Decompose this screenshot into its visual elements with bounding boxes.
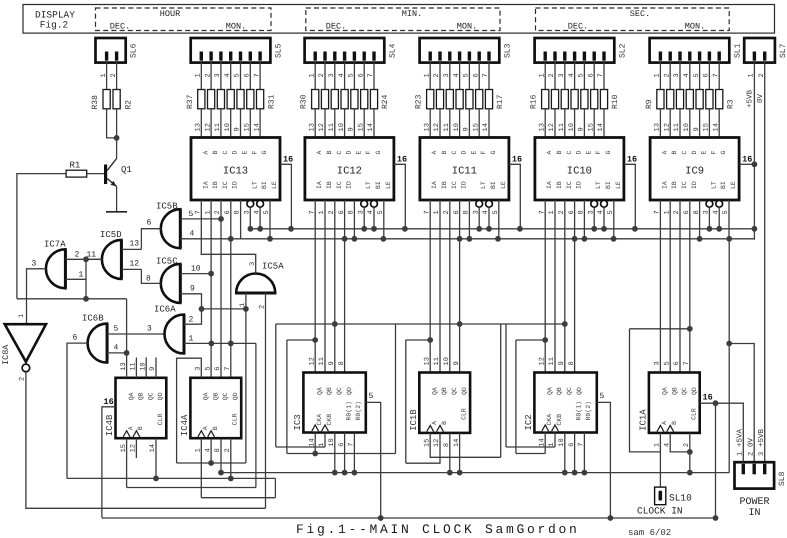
node IC1B pin14 gnd (457, 470, 463, 476)
wire resistor 0-1 to IC (210, 109, 212, 138)
svg-text:1: 1 (79, 271, 84, 280)
node IC3 pin7 gnd (352, 470, 358, 476)
svg-text:R31: R31 (267, 94, 276, 109)
svg-text:9: 9 (578, 127, 586, 131)
svg-text:11: 11 (558, 123, 566, 131)
pin 5 of SL2 (583, 63, 585, 90)
wire 0V trunk jog to SL8 pin2 (729, 344, 754, 463)
wire IC5C pin9 input (180, 294, 201, 309)
wire IC2 pin10 down (564, 433, 566, 473)
svg-text:A: A (316, 151, 323, 155)
svg-text:B: B (212, 151, 219, 155)
wire IC7A pin2 to IC5D pin11 (65, 258, 102, 260)
wire resistor 2-4 to IC (468, 109, 470, 138)
svg-text:15: 15 (244, 123, 252, 131)
svg-text:SL1: SL1 (733, 43, 742, 58)
node H2 B4 QA col (542, 337, 548, 343)
wire resistor 3-2 to IC (564, 109, 566, 138)
IC IC11 box (420, 138, 509, 201)
svg-text:10: 10 (191, 265, 201, 274)
wire IC3 pin7 down (353, 433, 355, 473)
svg-text:BI: BI (720, 181, 727, 189)
svg-text:10: 10 (338, 123, 346, 131)
svg-text:+5VA: +5VA (737, 428, 745, 447)
svg-text:2: 2 (204, 73, 212, 77)
wire resistor 2-6 to IC (488, 109, 490, 138)
svg-text:16: 16 (742, 155, 752, 165)
wire line A y324 (276, 323, 565, 325)
wire col B5 LE to bus2 (728, 200, 730, 239)
svg-text:4: 4 (224, 73, 232, 77)
wire IC5D pin13 input (121, 248, 141, 250)
svg-text:CKB: CKB (326, 414, 333, 426)
svg-text:7: 7 (253, 73, 261, 77)
op-amp gate IC5D (NAND) (102, 240, 122, 279)
wire IC1A pin4 down (670, 433, 690, 452)
wire IC5C output pin8 to IC5D pin12 (141, 269, 160, 283)
svg-text:12: 12 (433, 123, 441, 131)
svg-text:13: 13 (423, 357, 431, 365)
svg-text:5: 5 (348, 73, 356, 77)
svg-text:CKB: CKB (556, 414, 563, 426)
wire H453 block2 (287, 453, 396, 455)
svg-text:QC: QC (566, 387, 573, 395)
node bus2 junction (467, 236, 473, 242)
svg-text:DEC.: DEC. (110, 22, 130, 32)
pin 2 of SL5 (210, 63, 212, 90)
svg-text:R0(2): R0(2) (355, 401, 362, 421)
svg-text:QB: QB (138, 392, 145, 400)
svg-text:5: 5 (693, 73, 701, 77)
svg-text:7: 7 (224, 367, 232, 371)
wire IC6A1 net down (255, 343, 257, 487)
wire col B4 c0 to counter (544, 200, 546, 373)
svg-text:ID: ID (691, 181, 698, 189)
IC IC1B box (419, 373, 470, 433)
wire resistor 4-3 to IC (689, 109, 691, 138)
wire LT pin to bus1 IC13 (249, 207, 251, 229)
node col715 on 5V bus (713, 515, 719, 521)
wire resistor 2-1 to IC (439, 109, 441, 138)
svg-text:IC7A: IC7A (44, 240, 66, 250)
svg-text:3: 3 (673, 73, 681, 77)
node bus2 junction (572, 236, 578, 242)
wire col B3 LE to bus2 (498, 200, 500, 239)
wire col B5 c2 to counter (679, 200, 681, 373)
svg-text:11: 11 (214, 123, 222, 131)
node lineA end B4 QC col (562, 321, 568, 327)
svg-text:IA: IA (661, 181, 668, 189)
svg-text:11: 11 (433, 357, 441, 365)
svg-text:CLR: CLR (232, 413, 239, 425)
wire col B2 c1 to counter (324, 200, 326, 373)
svg-text:R1: R1 (70, 161, 81, 171)
svg-text:Q1: Q1 (121, 165, 132, 175)
wire IC5D pin12 input (121, 268, 141, 270)
svg-text:4: 4 (190, 230, 195, 239)
wire IC4B pin16 stub (102, 407, 116, 518)
resistor network R23-R17 (427, 90, 434, 109)
svg-text:CLR: CLR (157, 413, 164, 425)
wire Hc y478.4 from IC6B (67, 477, 275, 479)
svg-text:B: B (212, 426, 219, 430)
svg-text:14: 14 (712, 123, 720, 131)
pin 16 stub IC11 (509, 164, 520, 229)
wire IC1B pin15 down-right-up (430, 433, 501, 457)
svg-text:QC: QC (681, 387, 688, 395)
wire +5VB col corner into bus2 (753, 229, 755, 240)
wire resistor 0-4 to IC (240, 109, 242, 138)
pin 3 of SL2 (564, 63, 566, 90)
wire resistor 1-6 to IC (373, 109, 375, 138)
wire IC4A pin4 down (210, 438, 212, 463)
wire IC1A pin16 stub (700, 402, 744, 404)
node bus1 junction (402, 226, 408, 232)
wire col B4 c1 to counter (554, 200, 556, 373)
node 0V trunk mid junction (726, 341, 732, 347)
wire IC2 CKB down (554, 433, 556, 448)
svg-text:SL5: SL5 (274, 43, 283, 58)
node IC1A16 junction (713, 400, 719, 406)
svg-text:IC1B: IC1B (409, 409, 419, 431)
node IC2 VCC on 5V bus (608, 515, 614, 521)
pin 6 of SL4 (363, 63, 365, 90)
svg-text:E: E (701, 151, 708, 155)
svg-text:6: 6 (357, 73, 365, 77)
node gnd bus start (218, 470, 224, 476)
node bus1 junction (707, 226, 713, 232)
svg-text:LE: LE (271, 181, 278, 189)
wire IC1B pin14 down (459, 433, 461, 473)
svg-text:G: G (490, 151, 497, 155)
pin 2 of SL1 (669, 63, 671, 90)
wire IC3 CKA down (314, 433, 316, 454)
svg-text:2: 2 (259, 305, 267, 309)
svg-text:10: 10 (453, 123, 461, 131)
wire LT pin to bus1 IC11 (478, 207, 480, 229)
wire IC1A feedback H1_5 (630, 328, 690, 330)
svg-text:12: 12 (308, 357, 316, 365)
svg-text:IC6A: IC6A (154, 305, 176, 315)
wire R38 bottom to junction (107, 109, 117, 138)
wire resistor 3-0 to IC (544, 109, 546, 138)
wire IC1B pin12 down to H463 (406, 433, 440, 463)
wire resistor 2-5 to IC (478, 109, 480, 138)
node IC3 VCC on 5V bus (378, 515, 384, 521)
svg-text:SL6: SL6 (130, 43, 139, 58)
wire resistor 3-3 to IC (574, 109, 576, 138)
svg-text:B: B (137, 426, 144, 430)
node R38/R2 junction (114, 135, 120, 141)
svg-text:13: 13 (195, 123, 203, 131)
svg-text:IC4A: IC4A (180, 414, 190, 436)
svg-text:12: 12 (538, 357, 546, 365)
svg-text:0V: 0V (756, 93, 765, 103)
wire IC6B pin5 to IC6A pin3 (107, 333, 164, 335)
svg-text:QA: QA (431, 387, 438, 395)
svg-text:9: 9 (190, 285, 195, 294)
svg-text:R17: R17 (496, 94, 505, 109)
svg-text:14: 14 (367, 123, 375, 131)
wire col B2 LE to bus2 (383, 200, 385, 239)
svg-text:1: 1 (423, 73, 431, 77)
node bus1 junction (257, 226, 263, 232)
node bus2 junction (726, 236, 732, 242)
svg-text:B: B (556, 151, 563, 155)
svg-text:IC10: IC10 (567, 166, 592, 178)
connector SL4 (305, 38, 385, 63)
connector SL10 (655, 487, 666, 505)
svg-text:5: 5 (369, 392, 374, 401)
IC IC2 box (534, 373, 596, 433)
wire bus1 LT/BI supply rail (250, 228, 754, 230)
node IC3 CKA junction (312, 451, 318, 457)
svg-text:SL8: SL8 (778, 471, 787, 486)
svg-text:R9: R9 (645, 99, 654, 109)
wire H2 block4 (516, 339, 545, 341)
svg-text:sam 6/02: sam 6/02 (628, 528, 671, 538)
wire IC4A feedback top pin3 (177, 358, 202, 463)
node IC4B14 on Hc (153, 476, 159, 482)
wire IC5B pin5 input (180, 218, 221, 220)
wire lineA descender x395.5 (395, 324, 397, 454)
pin 4 of SL2 (574, 63, 576, 90)
resistor network R37-R31 (198, 90, 205, 109)
svg-text:DEC.: DEC. (568, 22, 588, 32)
pin 5 of SL4 (353, 63, 355, 90)
svg-text:A: A (546, 151, 553, 155)
svg-text:9: 9 (558, 361, 566, 365)
svg-text:5: 5 (204, 367, 212, 371)
svg-text:R23: R23 (415, 94, 424, 109)
svg-text:B: B (326, 151, 333, 155)
node bus1 junction (632, 226, 638, 232)
pin 3 of SL5 (220, 63, 222, 90)
bubble LT IC12 (361, 200, 368, 207)
wire VA4 up to lineA (505, 324, 507, 447)
node IC1A pin2 col at 451.9 (687, 449, 693, 455)
svg-text:R0(1): R0(1) (575, 401, 582, 421)
wire IC3 pin10 down (334, 433, 336, 473)
svg-text:B: B (441, 421, 448, 425)
wire col B1 pin6 to IC4A (230, 200, 232, 378)
svg-text:12: 12 (318, 123, 326, 131)
wire resistor 2-2 to IC (449, 109, 451, 138)
wire Ha y463 (177, 462, 246, 464)
wire LT pin to bus1 IC10 (593, 207, 595, 229)
bubble BI IC13 (257, 200, 264, 207)
svg-text:16: 16 (512, 155, 522, 165)
wire 5V bus y518 (102, 517, 716, 519)
svg-text:QD: QD (576, 387, 583, 395)
svg-text:MON.: MON. (457, 22, 477, 32)
svg-text:SL7: SL7 (779, 43, 787, 58)
svg-text:LT: LT (710, 181, 717, 189)
svg-text:15: 15 (587, 123, 595, 131)
svg-text:2: 2 (75, 251, 80, 260)
bubble BI IC11 (486, 200, 493, 207)
wire SL8 pin1 +5VA up (742, 403, 744, 462)
connector SL6 (96, 38, 126, 63)
svg-text:ID: ID (461, 181, 468, 189)
svg-text:R3: R3 (726, 99, 735, 109)
svg-text:2: 2 (548, 73, 556, 77)
wire BI pin to bus1 IC11 (488, 207, 490, 229)
svg-text:IB: IB (556, 181, 563, 189)
wire resistor 4-2 to IC (679, 109, 681, 138)
wire IC2 CKA down (544, 433, 546, 454)
node IC2 pin6 gnd (572, 470, 578, 476)
wire Hd y487.5 (127, 487, 256, 489)
node lineA on B2 QC col (332, 321, 338, 327)
svg-text:6: 6 (73, 334, 78, 343)
pin 3 of SL1 (679, 63, 681, 90)
pin 7 of SL1 (718, 63, 720, 90)
wire IC5B pin4 input (joins bus2) (180, 238, 185, 240)
node bus2 junction (342, 236, 348, 242)
node IC3 pin10 gnd (332, 470, 338, 476)
op-amp gate IC7A (NAND) (46, 249, 65, 288)
wire resistor 1-2 to IC (334, 109, 336, 138)
node IC4A2 on Hc (228, 476, 234, 482)
op-amp gate IC5A (AND, dome up) (236, 274, 275, 294)
svg-text:IC12: IC12 (337, 166, 362, 178)
wire resistor 4-6 to IC (718, 109, 720, 138)
pin 2 of SL6 (116, 63, 118, 90)
svg-text:5: 5 (114, 325, 119, 334)
pin 1 of SL7 (+5VB) (753, 63, 755, 229)
svg-text:1: 1 (748, 73, 756, 77)
svg-text:R37: R37 (186, 94, 195, 109)
IC IC12 box (305, 138, 394, 201)
wire col B4 pin8 to bus2 (583, 200, 585, 239)
svg-text:7: 7 (597, 73, 605, 77)
node bus2 junction (611, 236, 617, 242)
svg-text:6: 6 (244, 73, 252, 77)
svg-text:IC8A: IC8A (1, 344, 11, 365)
wire IC7A pin3 output (27, 269, 46, 324)
svg-text:E: E (470, 151, 477, 155)
svg-text:5: 5 (234, 73, 242, 77)
svg-text:HOUR: HOUR (160, 9, 180, 19)
svg-text:QA: QA (662, 387, 669, 395)
svg-text:DEC.: DEC. (326, 22, 346, 32)
ground Q1 emitter (106, 211, 127, 213)
node IC6A2/IC5C9 junction (199, 306, 205, 312)
svg-text:CLOCK IN: CLOCK IN (637, 506, 683, 517)
resistor network R9-R3 (657, 90, 664, 109)
wire resistor 1-0 to IC (314, 109, 316, 138)
svg-text:4: 4 (453, 73, 461, 77)
wire IC6B pin4 (107, 352, 127, 354)
svg-text:13: 13 (423, 123, 431, 131)
svg-text:A: A (202, 151, 209, 155)
pin 4 of SL1 (689, 63, 691, 90)
svg-text:CLR: CLR (691, 408, 698, 420)
svg-text:POWER: POWER (739, 497, 769, 508)
wire IC4B stub up pin10 (145, 358, 147, 378)
wire IC7A pin1 (65, 278, 86, 280)
svg-text:ID: ID (576, 181, 583, 189)
node IC1A CLR gnd (687, 470, 693, 476)
wire resistor 0-5 to IC (249, 109, 251, 138)
wire R2 bottom (116, 109, 118, 138)
svg-text:7: 7 (683, 361, 691, 365)
wire VB4 down (515, 340, 517, 454)
connector SL1 (650, 38, 730, 63)
transistor Q1 (104, 165, 107, 185)
svg-text:BI: BI (375, 181, 382, 189)
svg-text:D: D (232, 151, 239, 155)
wire col B2 c0 to counter (314, 200, 316, 373)
svg-text:E: E (355, 151, 362, 155)
svg-text:10: 10 (568, 123, 576, 131)
svg-text:IC: IC (566, 181, 573, 189)
node H2 B2 QA col (312, 337, 318, 343)
svg-text:IC9: IC9 (685, 166, 704, 178)
wire col B2 c3 to counter (344, 200, 346, 373)
svg-text:8: 8 (338, 361, 346, 365)
svg-text:4: 4 (683, 73, 691, 77)
node bus1 junction (601, 226, 607, 232)
svg-text:C: C (681, 151, 688, 155)
wire H453 block4 (516, 453, 545, 455)
node bus1 junction (486, 226, 492, 232)
pin 5 of SL1 (699, 63, 701, 90)
node IC5A1 junction y308.9 (243, 306, 249, 312)
svg-text:6: 6 (472, 73, 480, 77)
node IC2 pin10 gnd (562, 470, 568, 476)
wire col B3 c3 to counter (459, 200, 461, 373)
svg-text:Fig.1--MAIN CLOCK SamGordon: Fig.1--MAIN CLOCK SamGordon (296, 522, 580, 537)
wire resistor 0-6 to IC (259, 109, 261, 138)
wire IC5A pin2 down (265, 293, 267, 508)
wire BI pin to bus1 IC13 (259, 207, 261, 229)
svg-text:2: 2 (189, 316, 194, 325)
wire IC6B output pin6 down-left (67, 343, 88, 478)
wire IC6A pin2 (184, 309, 202, 324)
node bus2 junction (267, 236, 273, 242)
wire H1_5 down (630, 329, 661, 452)
pin 7 of SL5 (259, 63, 261, 90)
svg-text:2: 2 (433, 73, 441, 77)
wire IC4B pin15 down (126, 438, 128, 487)
wire gnd bus y472.6 (221, 472, 729, 474)
node bus1 junction (752, 226, 758, 232)
svg-text:IA: IA (546, 181, 553, 189)
svg-text:LE: LE (500, 181, 507, 189)
wire He y497.7 (201, 497, 275, 499)
svg-text:R16: R16 (530, 94, 539, 109)
node bus1 junction (371, 226, 377, 232)
wire R1 left down to left net (17, 174, 66, 299)
svg-text:R24: R24 (381, 94, 390, 109)
svg-text:D: D (461, 151, 468, 155)
node bus1 junction (361, 226, 367, 232)
svg-text:IC5C: IC5C (156, 257, 178, 267)
wire IC8A output pin2 (26, 372, 266, 509)
svg-text:IC4B: IC4B (105, 414, 115, 436)
node IC6A1 on col 211.4 (209, 341, 215, 347)
svg-text:2: 2 (318, 73, 326, 77)
svg-text:IB: IB (441, 181, 448, 189)
svg-text:F: F (480, 151, 487, 155)
wire col B2 c2 to counter (334, 200, 336, 373)
svg-text:G: G (375, 151, 382, 155)
node bus1 junction (716, 226, 722, 232)
svg-text:1: 1 (308, 73, 316, 77)
svg-text:7: 7 (482, 73, 490, 77)
